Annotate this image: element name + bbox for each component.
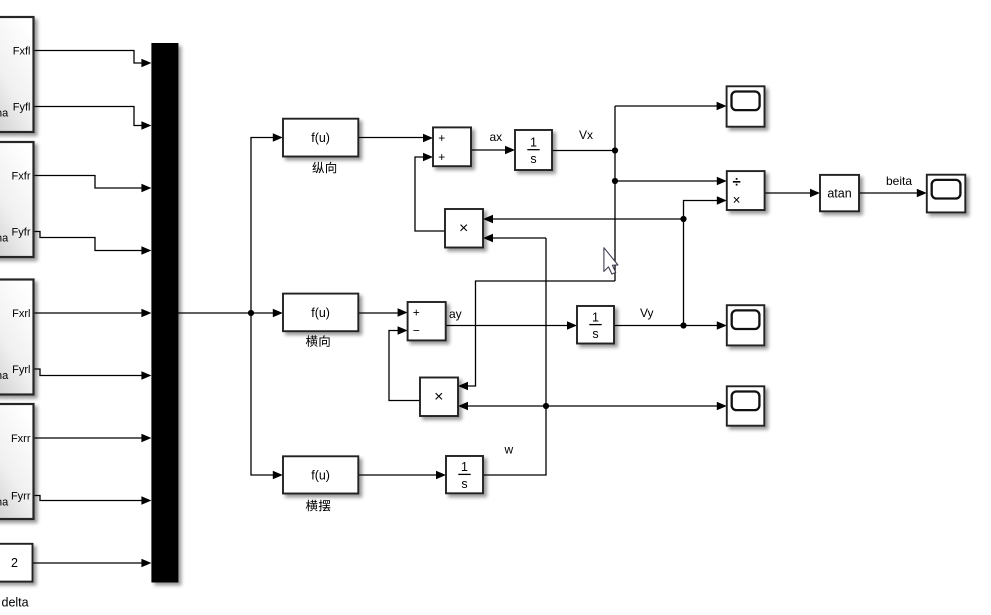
svg-text:Fyfr: Fyfr bbox=[12, 227, 31, 239]
wire w to Product1 input 2 bbox=[483, 234, 546, 242]
wire branch down to Fcn 横摆 bbox=[251, 313, 283, 479]
wire Fxfl to Mux input 1 bbox=[33, 51, 151, 68]
integrator block 1/s w bbox=[446, 456, 483, 493]
wire Fcn3 to Integrator w bbox=[358, 471, 446, 479]
svg-text:×: × bbox=[459, 220, 468, 237]
constant block delta value 2 bbox=[0, 544, 33, 582]
wire atan output beita to Scope2 bbox=[859, 189, 927, 197]
wire Fxrr to Mux input 7 bbox=[33, 434, 151, 442]
svg-text:1: 1 bbox=[592, 310, 599, 324]
node Vy-Scope3 junction bbox=[680, 322, 686, 328]
wire w to Product2 input 2 bbox=[458, 402, 546, 410]
wire Vx feedback down to Product2 input 1 bbox=[458, 281, 615, 390]
wire Fcn1 to Sum1 + input bbox=[358, 134, 433, 142]
label 横向 bbox=[306, 335, 330, 347]
label Vx bbox=[579, 128, 593, 142]
Fcn block f(u) 纵向 bbox=[283, 119, 358, 157]
wire Product1 output feedback to Sum1 second + input bbox=[415, 153, 445, 231]
Fcn block f(u) 横向 bbox=[283, 294, 358, 332]
svg-text:ax: ax bbox=[490, 130, 503, 144]
wire Vx net vertical bbox=[614, 106, 616, 281]
subsystem block 1 (Fxfl/Fyfl) bbox=[0, 17, 34, 132]
svg-text:1: 1 bbox=[530, 136, 537, 150]
wire Fyfr to Mux input 4 bbox=[33, 232, 151, 255]
svg-text:−: − bbox=[413, 324, 420, 338]
svg-text:Vy: Vy bbox=[640, 306, 654, 320]
divide block (Vy/Vx) bbox=[727, 171, 765, 210]
label ax bbox=[490, 130, 503, 144]
svg-text:Fxrl: Fxrl bbox=[12, 308, 30, 320]
label Vy bbox=[640, 306, 654, 320]
wire Sum2 output ay to Integrator Vy bbox=[446, 321, 577, 329]
integrator block 1/s Vx bbox=[515, 130, 552, 170]
scope block Scope4 (w) bbox=[727, 386, 765, 425]
mouse cursor bbox=[604, 248, 618, 274]
wire Fcn2 to Sum2 + input bbox=[358, 308, 407, 316]
subsystem block 3 (Fxrl/Fyrl) bbox=[0, 280, 34, 395]
svg-text:+: + bbox=[413, 305, 420, 319]
svg-text:f(u): f(u) bbox=[311, 468, 330, 482]
wire Fyrr to Mux input 8 bbox=[33, 496, 151, 505]
wire Integrator Vy output to Vy net bbox=[614, 325, 684, 327]
wire Fxrl to Mux input 5 bbox=[33, 309, 151, 317]
wire Fyrl to Mux input 6 bbox=[33, 369, 151, 380]
node Vx-Scope1 junction bbox=[612, 147, 618, 153]
svg-text:s: s bbox=[530, 152, 536, 166]
sum block Sum1 (+ +) bbox=[433, 127, 471, 166]
svg-text:÷: ÷ bbox=[732, 173, 740, 190]
svg-text:Fyrl: Fyrl bbox=[12, 364, 30, 376]
wire w to Scope4 bbox=[546, 402, 727, 410]
wire Mux output bus to branch node bbox=[178, 312, 251, 314]
wire Integrator Vx output to Vx net bbox=[552, 150, 615, 152]
wire Vy net vertical to Divide input 2 bbox=[684, 196, 727, 325]
subsystem block 4 (Fxrr/Fyrr) bbox=[0, 404, 34, 519]
product block Product2 (flipped, Vx*w) bbox=[420, 378, 458, 417]
svg-text:atan: atan bbox=[827, 186, 851, 200]
svg-text:delta: delta bbox=[2, 596, 29, 610]
wire branch to Fcn 横向 bbox=[251, 309, 283, 317]
mux block bbox=[151, 43, 178, 583]
svg-text:s: s bbox=[461, 477, 467, 491]
wire delta constant to Mux input 9 bbox=[32, 559, 151, 567]
label ay bbox=[449, 307, 462, 321]
svg-text:1: 1 bbox=[461, 460, 468, 474]
svg-text:ha: ha bbox=[0, 497, 9, 509]
svg-text:f(u): f(u) bbox=[311, 306, 330, 320]
scope block Scope2 (beita) bbox=[927, 175, 966, 213]
wire Fxfr to Mux input 3 bbox=[33, 176, 151, 193]
wire Product2 output feedback to Sum2 minus input bbox=[389, 326, 420, 400]
label 横摆 bbox=[306, 500, 331, 512]
subsystem block 2 (Fxfr/Fyfr) bbox=[0, 142, 34, 257]
wire Vy to Scope3 bbox=[684, 321, 727, 329]
svg-text:Fxrr: Fxrr bbox=[11, 433, 31, 445]
wire Vx to Scope1 bbox=[615, 102, 727, 110]
wire Vy to Product1 input 1 bbox=[483, 215, 684, 223]
sum block Sum2 (+ -) bbox=[408, 302, 446, 340]
svg-text:ha: ha bbox=[0, 233, 9, 245]
node bus branch junction bbox=[248, 310, 254, 316]
svg-text:×: × bbox=[733, 193, 741, 208]
svg-text:ha: ha bbox=[0, 108, 9, 120]
svg-text:×: × bbox=[434, 389, 443, 406]
product block Product1 (flipped, Vy*w) bbox=[445, 209, 483, 248]
svg-text:beita: beita bbox=[886, 174, 912, 188]
svg-text:Fyrr: Fyrr bbox=[11, 491, 31, 503]
node Vy-Product1 junction bbox=[680, 216, 686, 222]
label 纵向 bbox=[312, 162, 336, 174]
label beita bbox=[886, 174, 912, 188]
svg-text:+: + bbox=[438, 150, 445, 164]
scope block Scope3 (Vy) bbox=[727, 305, 765, 345]
node Vx-Divide junction bbox=[612, 178, 618, 184]
wire Vx to Divide input 1 bbox=[615, 177, 727, 185]
atan block bbox=[820, 175, 859, 211]
node w junction bbox=[543, 403, 549, 409]
svg-text:+: + bbox=[438, 131, 445, 145]
svg-text:w: w bbox=[504, 443, 514, 457]
wire branch up to Fcn 纵向 bbox=[251, 133, 283, 313]
svg-text:Vx: Vx bbox=[579, 128, 593, 142]
svg-text:ha: ha bbox=[0, 370, 9, 382]
wire Sum1 output ax to Integrator Vx bbox=[471, 146, 515, 154]
wire Divide output to atan bbox=[765, 189, 820, 197]
wire Fyfl to Mux input 2 bbox=[33, 107, 151, 130]
wire Integrator w output up the w net bbox=[483, 238, 546, 475]
svg-text:Fyfl: Fyfl bbox=[13, 102, 31, 114]
svg-text:2: 2 bbox=[11, 556, 18, 570]
scope block Scope1 (Vx) bbox=[727, 86, 765, 126]
label delta bbox=[2, 596, 29, 610]
svg-text:s: s bbox=[592, 327, 598, 341]
label w bbox=[504, 443, 514, 457]
integrator block 1/s Vy bbox=[577, 306, 614, 344]
svg-text:Fxfl: Fxfl bbox=[13, 46, 31, 58]
svg-text:Fxfr: Fxfr bbox=[12, 171, 31, 183]
svg-text:ay: ay bbox=[449, 307, 462, 321]
Fcn block f(u) 横摆 bbox=[283, 456, 358, 493]
svg-text:f(u): f(u) bbox=[311, 131, 330, 145]
